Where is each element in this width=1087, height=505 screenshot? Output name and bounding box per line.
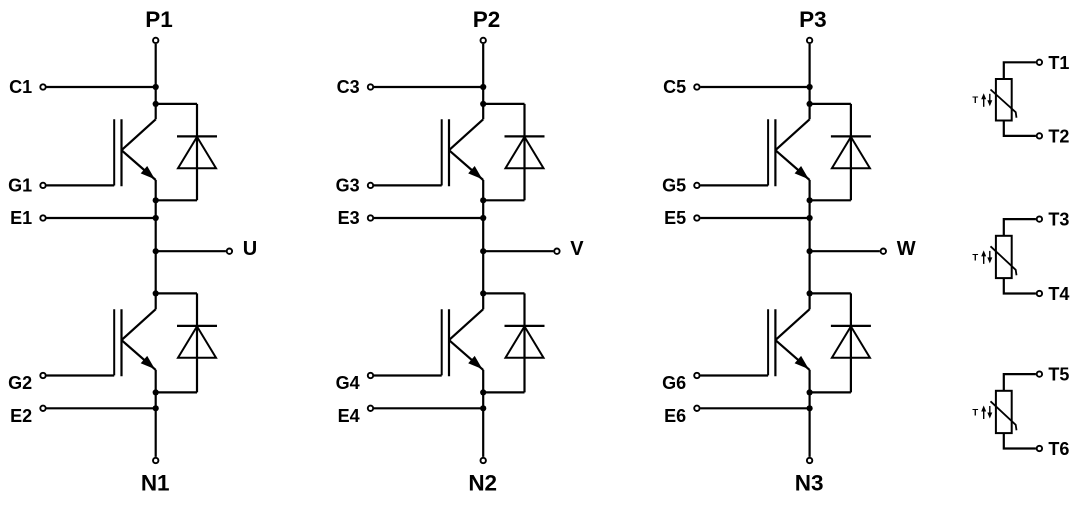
svg-text:T2: T2 [1048,126,1069,146]
wire: C3 to rail [374,86,483,88]
svg-text:T5: T5 [1048,365,1069,385]
diode D3 (freewheel, cathode up) [505,104,545,200]
wire: diode branch top, rail to diode column [156,103,197,105]
svg-text:E4: E4 [338,406,360,426]
wire: G6 to gate bar [700,374,768,376]
wire: diode branch bottom, diode column to rail [156,199,197,201]
svg-text:E5: E5 [664,208,686,228]
terminal E5 [694,215,699,220]
diode D1 (freewheel, cathode up) [177,104,217,200]
wire: rail from upper emitter down through E pin to lower IGBT [155,180,157,309]
svg-text:E6: E6 [664,406,686,426]
svg-text:P3: P3 [799,7,827,32]
wire: rail from P terminal down to upper IGBT collector [155,44,157,119]
wire: diode branch top, rail to diode column [810,292,851,294]
junction: upper diode branch split [153,101,159,107]
junction: E2 on rail [153,405,159,411]
svg-text:N2: N2 [468,471,497,496]
wire: diode branch top, rail to diode column [810,103,851,105]
svg-text:N1: N1 [141,471,170,496]
wire: diode branch top, rail to diode column [483,103,524,105]
terminal G3 [368,183,373,188]
wire: E3 to rail [374,217,483,219]
terminal C1 [40,84,45,89]
junction: phase output W [807,248,813,254]
svg-text:T: T [972,95,978,106]
wire: C5 to rail [700,86,809,88]
terminal G5 [694,183,699,188]
transistor Q4 (IGBT) [442,309,484,376]
svg-text:E1: E1 [10,208,32,228]
svg-text:G5: G5 [662,175,686,195]
wire: thermistor R2 bottom to T4 [1004,278,1036,293]
wire: diode branch bottom, diode column to rail [156,391,197,393]
junction: upper diode branch split [480,101,486,107]
junction: upper diode return on rail [153,197,159,203]
junction: upper diode return on rail [807,197,813,203]
transistor Q2 (IGBT) [114,309,156,376]
svg-text:P2: P2 [473,7,501,32]
svg-text:G4: G4 [336,373,360,393]
wire: G2 to gate bar [47,374,115,376]
transistor Q6 (IGBT) [768,309,810,376]
wire: diode branch top, rail to diode column [156,292,197,294]
junction: phase output U [153,248,159,254]
svg-text:G1: G1 [8,175,32,195]
svg-text:N3: N3 [795,471,824,496]
junction: lower diode branch split [807,290,813,296]
svg-text:E2: E2 [10,406,32,426]
junction: lower diode return on rail [807,389,813,395]
svg-text:T3: T3 [1048,210,1069,230]
terminal E2 [40,406,45,411]
thermistor R1 (NTC) [991,79,1017,121]
transistor Q5 (IGBT) [768,119,810,186]
wire: diode branch bottom, diode column to rail [810,199,851,201]
diode D4 (freewheel, cathode up) [505,293,545,392]
junction: C3 on rail [480,84,486,90]
wire: rail from P terminal down to upper IGBT collector [482,44,484,119]
svg-text:P1: P1 [145,7,173,32]
terminal P1 [153,38,158,43]
wire: diode branch bottom, diode column to rail [483,391,524,393]
transistor Q3 (IGBT) [442,119,484,186]
terminal C5 [694,84,699,89]
wire: C1 to rail [47,86,156,88]
wire: rail from lower emitter down to N terminal [808,370,810,457]
terminal G1 [40,183,45,188]
svg-text:G6: G6 [662,373,686,393]
junction: lower diode return on rail [480,389,486,395]
terminal N3 [807,458,812,463]
wire: E4 to rail [374,407,483,409]
terminal T6 [1037,446,1042,451]
wire: rail from lower emitter down to N terminal [482,370,484,457]
junction: C1 on rail [153,84,159,90]
junction: E3 on rail [480,215,486,221]
svg-text:T: T [972,408,978,419]
terminal N2 [481,458,486,463]
junction: lower diode branch split [480,290,486,296]
svg-text:T6: T6 [1048,439,1069,459]
svg-text:G3: G3 [336,175,360,195]
svg-text:T1: T1 [1048,53,1069,73]
terminal G4 [368,373,373,378]
wire: T3 to thermistor R2 top [1004,219,1036,236]
terminal E1 [40,215,45,220]
terminal V [554,249,559,254]
junction: C5 on rail [807,84,813,90]
svg-text:T4: T4 [1048,284,1069,304]
wire: diode branch bottom, diode column to rail [810,391,851,393]
thermistor R3 (NTC) [991,391,1017,433]
svg-text:E3: E3 [338,208,360,228]
thermistor R3 annotation: T with up/down arrows [972,406,992,420]
terminal T1 [1037,60,1042,65]
wire: rail from lower emitter down to N terminal [155,370,157,457]
wire: diode branch bottom, diode column to rail [483,199,524,201]
wire: rail from upper emitter down through E pin to lower IGBT [482,180,484,309]
junction: E4 on rail [480,405,486,411]
thermistor R1 annotation: T with up/down arrows [972,93,992,107]
terminal T4 [1037,291,1042,296]
wire: T1 to thermistor R1 top [1004,62,1036,79]
wire: rail from P terminal down to upper IGBT collector [808,44,810,119]
wire: T5 to thermistor R3 top [1004,374,1036,391]
junction: E1 on rail [153,215,159,221]
svg-text:T: T [972,252,978,263]
terminal E4 [368,406,373,411]
junction: lower diode branch split [153,290,159,296]
terminal T2 [1037,133,1042,138]
wire: E2 to rail [47,407,156,409]
diode D6 (freewheel, cathode up) [831,293,871,392]
wire: thermistor R3 bottom to T6 [1004,433,1036,448]
svg-text:C5: C5 [663,77,686,97]
wire: G1 to gate bar [47,184,115,186]
terminal T3 [1037,216,1042,221]
junction: phase output V [480,248,486,254]
svg-text:G2: G2 [8,373,32,393]
terminal N1 [153,458,158,463]
junction: upper diode return on rail [480,197,486,203]
terminal U [227,249,232,254]
terminal G2 [40,373,45,378]
transistor Q1 (IGBT) [114,119,156,186]
wire: G4 to gate bar [374,374,442,376]
junction: E5 on rail [807,215,813,221]
diode D5 (freewheel, cathode up) [831,104,871,200]
svg-text:C1: C1 [9,77,32,97]
junction: E6 on rail [807,405,813,411]
wire: rail to U terminal [156,250,226,252]
wire: rail to W terminal [810,250,880,252]
wire: E6 to rail [700,407,809,409]
svg-text:V: V [570,238,584,260]
terminal E3 [368,215,373,220]
svg-text:W: W [897,238,916,260]
diode D2 (freewheel, cathode up) [177,293,217,392]
thermistor R2 annotation: T with up/down arrows [972,250,992,264]
wire: rail to V terminal [483,250,553,252]
svg-text:U: U [243,238,257,260]
svg-text:C3: C3 [337,77,360,97]
terminal E6 [694,406,699,411]
wire: rail from upper emitter down through E pin to lower IGBT [808,180,810,309]
junction: upper diode branch split [807,101,813,107]
thermistor R2 (NTC) [991,236,1017,278]
wire: diode branch top, rail to diode column [483,292,524,294]
wire: G5 to gate bar [700,184,768,186]
junction: lower diode return on rail [153,389,159,395]
terminal P2 [481,38,486,43]
wire: E5 to rail [700,217,809,219]
terminal P3 [807,38,812,43]
wire: G3 to gate bar [374,184,442,186]
terminal G6 [694,373,699,378]
terminal C3 [368,84,373,89]
terminal T5 [1037,371,1042,376]
wire: E1 to rail [47,217,156,219]
wire: thermistor R1 bottom to T2 [1004,121,1036,136]
terminal W [881,249,886,254]
